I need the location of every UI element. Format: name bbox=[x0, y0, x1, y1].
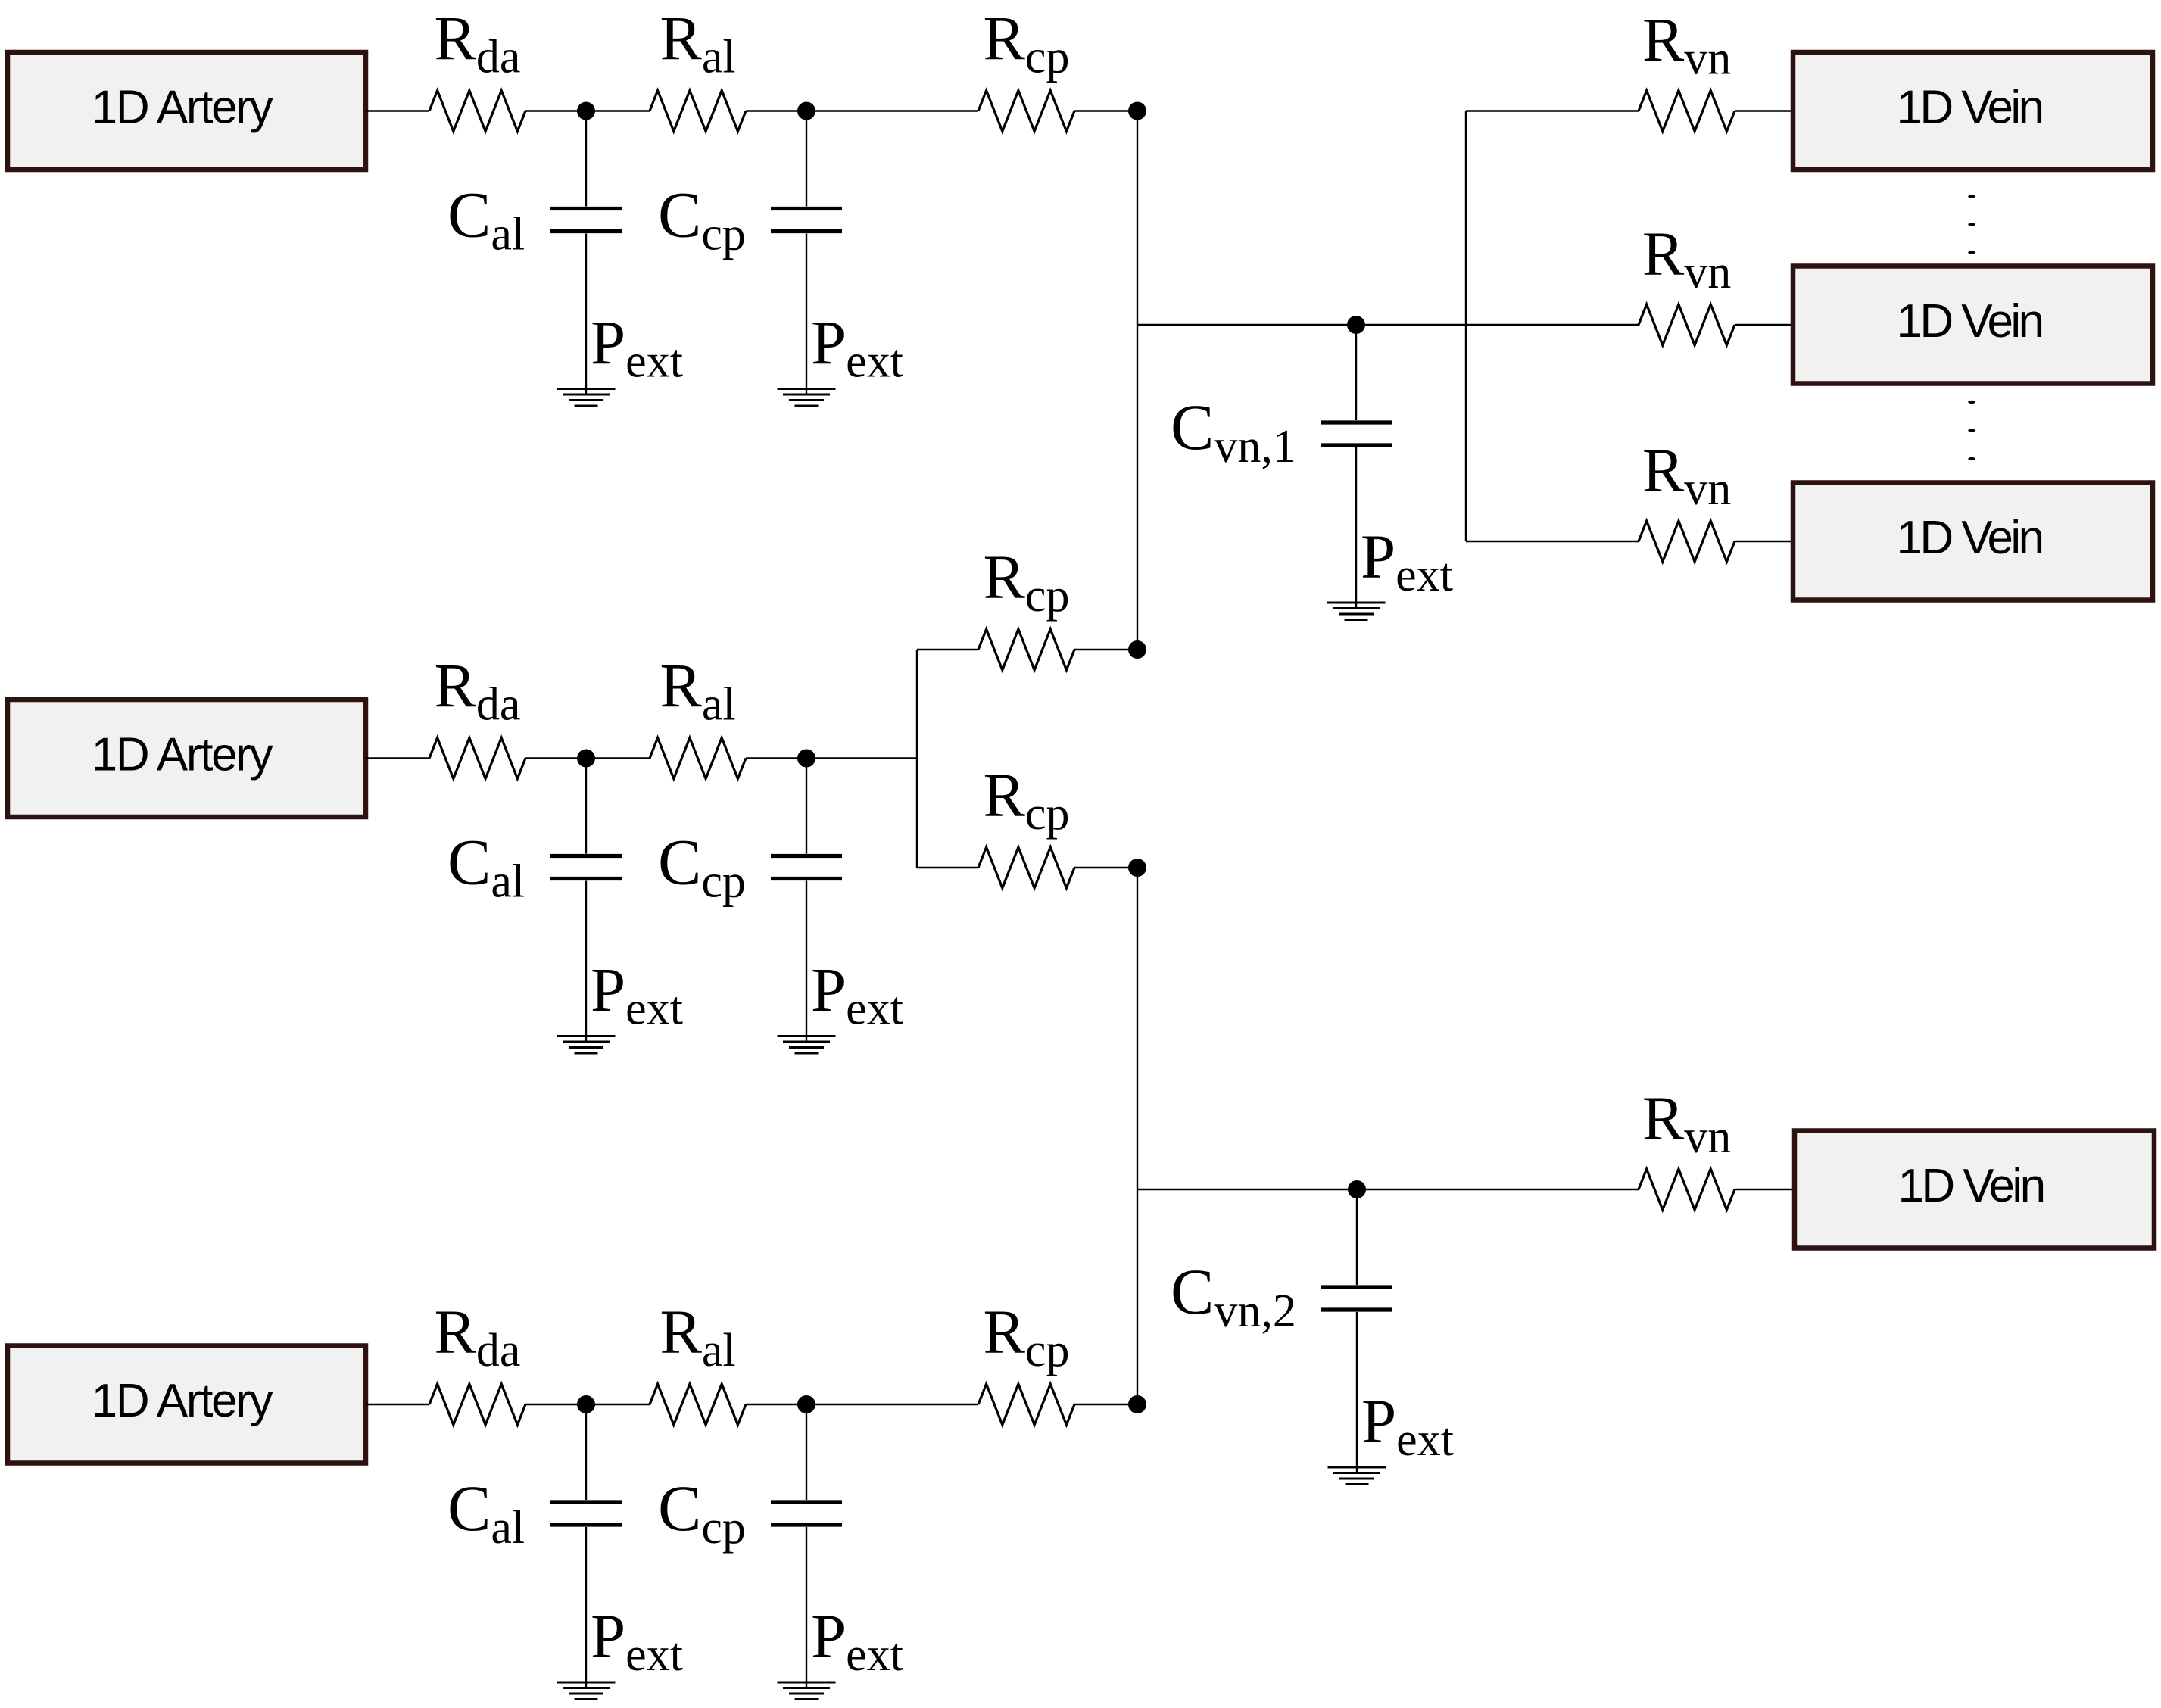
wire C_vn,2 node to R_vn (vein 4 branch) bbox=[1466, 1189, 1639, 1190]
ground P_ext (row 3, under C_cp) bbox=[778, 1682, 836, 1700]
wire R_al to node 2 (row 3) bbox=[746, 1404, 806, 1405]
node C (lower middle R_cp output) bbox=[1128, 859, 1146, 877]
resistor R_vn (bottom vein branch) bbox=[1639, 521, 1735, 562]
1D Vein box 4 bbox=[1795, 1131, 2154, 1248]
capacitor C_al (row 2) bbox=[550, 759, 622, 1041]
svg-text:1D Artery: 1D Artery bbox=[92, 1375, 273, 1427]
wire artery2 output to R_da bbox=[366, 757, 429, 759]
1D Vein box 1 bbox=[1793, 52, 2153, 170]
wire bottom junction column to R_vn (net Cvn2) bbox=[1137, 1189, 1466, 1190]
wire row2 node2 to fork bbox=[806, 757, 917, 759]
wire R_al to node 2 (row 2) bbox=[746, 757, 806, 759]
node C_vn,2 tap bbox=[1348, 1180, 1366, 1198]
wire node1 to R_al (row 1) bbox=[586, 110, 650, 111]
resistor R_al (row 3) bbox=[650, 1384, 746, 1425]
node row2 junction 2 (R_al/R_cp/C_cp) bbox=[797, 750, 815, 768]
ellipsis dots between vein 1 and vein 2 bbox=[1968, 195, 1975, 254]
svg-text:1D Vein: 1D Vein bbox=[1897, 82, 2042, 134]
ground P_ext (row 3, under C_al) bbox=[557, 1682, 616, 1700]
ellipsis dots between vein 2 and vein 3 bbox=[1968, 401, 1975, 460]
wire venous bus vertical bbox=[1465, 111, 1467, 542]
resistor R_da (row 3) bbox=[429, 1384, 525, 1425]
capacitor C_cp (row 3) bbox=[771, 1404, 842, 1687]
wire lower R_cp to node C bbox=[1074, 867, 1137, 868]
1D Artery box 3 bbox=[8, 1346, 366, 1463]
resistor R_cp (row 1) bbox=[978, 91, 1074, 132]
wire junction column to venous bus (net Cvn1) bbox=[1137, 324, 1466, 326]
node B (upper middle R_cp output) bbox=[1128, 640, 1146, 659]
resistor R_vn (middle vein branch) bbox=[1639, 304, 1735, 345]
wire R_al to node 2 (row 1) bbox=[746, 110, 806, 111]
resistor R_al (row 1) bbox=[650, 91, 746, 132]
node C_vn,1 tap bbox=[1347, 316, 1365, 334]
node row1 junction 1 (R_da/R_al/C_al) bbox=[577, 102, 595, 120]
wire bus to R_vn (bottom vein branch) bbox=[1466, 541, 1639, 542]
wire R_cp row1 to junction A bbox=[1074, 110, 1137, 111]
svg-text:1D Vein: 1D Vein bbox=[1897, 512, 2042, 564]
capacitor C_cp (row 1) bbox=[771, 111, 842, 394]
wire row3 node2 to R_cp bbox=[806, 1404, 978, 1405]
wire bus to R_vn (top vein branch) bbox=[1466, 110, 1639, 111]
node row1 junction 2 (R_al/R_cp/C_cp) bbox=[797, 102, 815, 120]
capacitor C_vn,2 bbox=[1321, 1189, 1392, 1472]
node row2 junction 1 (R_da/R_al/C_al) bbox=[577, 750, 595, 768]
ground P_ext (under C_vn,1) bbox=[1327, 603, 1386, 620]
wire row1 node2 to R_cp bbox=[806, 110, 978, 111]
wire R_da to node (row 2) bbox=[525, 757, 586, 759]
capacitor C_vn,1 bbox=[1321, 325, 1392, 607]
resistor R_cp (middle upper) bbox=[978, 629, 1074, 670]
svg-text:1D Artery: 1D Artery bbox=[92, 729, 273, 781]
resistor R_da (row 2) bbox=[429, 738, 525, 779]
wire R_cp row3 to bottom junction bbox=[1074, 1404, 1137, 1405]
1D Artery box 2 bbox=[8, 700, 366, 817]
resistor R_vn (top vein branch) bbox=[1639, 91, 1735, 132]
resistor R_cp (middle lower) bbox=[978, 847, 1074, 888]
resistor R_al (row 2) bbox=[650, 738, 746, 779]
wire artery3 output to R_da bbox=[366, 1404, 429, 1405]
wire node1 to R_al (row 2) bbox=[586, 757, 650, 759]
wire R_vn to 1D Vein box (top) bbox=[1735, 110, 1793, 111]
wire vertical node C to bottom junction bbox=[1137, 868, 1138, 1404]
svg-text:1D Vein: 1D Vein bbox=[1897, 295, 2042, 348]
1D Vein box 2 bbox=[1793, 266, 2153, 384]
capacitor C_al (row 3) bbox=[550, 1404, 622, 1687]
wire artery1 output to R_da bbox=[366, 110, 429, 111]
wire fork vertical bbox=[916, 650, 918, 868]
ground P_ext (row 2, under C_cp) bbox=[778, 1036, 836, 1054]
capacitor C_cp (row 2) bbox=[771, 759, 842, 1041]
wire node1 to R_al (row 3) bbox=[586, 1404, 650, 1405]
resistor R_da (row 1) bbox=[429, 91, 525, 132]
1D Vein box 3 bbox=[1793, 483, 2153, 600]
wire R_da to node (row 1) bbox=[525, 110, 586, 111]
resistor R_cp (row 3) bbox=[978, 1384, 1074, 1425]
capacitor C_al (row 1) bbox=[550, 111, 622, 394]
node row3 junction 2 (R_al/R_cp/C_cp) bbox=[797, 1395, 815, 1413]
ground P_ext (row 1, under C_cp) bbox=[778, 389, 836, 407]
svg-text:1D Vein: 1D Vein bbox=[1898, 1160, 2044, 1212]
wire vertical junction A to node B bbox=[1137, 111, 1138, 650]
wire R_vn to 1D Vein box (middle) bbox=[1735, 324, 1793, 326]
wire R_vn to 1D Vein box 4 bbox=[1735, 1189, 1795, 1190]
wire R_da to node (row 3) bbox=[525, 1404, 586, 1405]
node bottom junction (row3 R_cp output) bbox=[1128, 1395, 1146, 1413]
ground P_ext (row 1, under C_al) bbox=[557, 389, 616, 407]
ground P_ext (row 2, under C_al) bbox=[557, 1036, 616, 1054]
svg-text:1D Artery: 1D Artery bbox=[92, 82, 273, 134]
resistor R_vn (vein 4 branch) bbox=[1639, 1169, 1735, 1210]
ground P_ext (under C_vn,2) bbox=[1328, 1467, 1386, 1485]
node junction A (top R_cp output) bbox=[1128, 102, 1146, 120]
wire fork to upper R_cp bbox=[917, 649, 978, 650]
1D Artery box 1 bbox=[8, 52, 366, 170]
wire R_vn to 1D Vein box (bottom) bbox=[1735, 541, 1793, 542]
node row3 junction 1 (R_da/R_al/C_al) bbox=[577, 1395, 595, 1413]
wire fork to lower R_cp bbox=[917, 867, 978, 868]
wire bus to R_vn (middle vein branch) bbox=[1466, 324, 1639, 326]
wire upper R_cp to node B bbox=[1074, 649, 1137, 650]
